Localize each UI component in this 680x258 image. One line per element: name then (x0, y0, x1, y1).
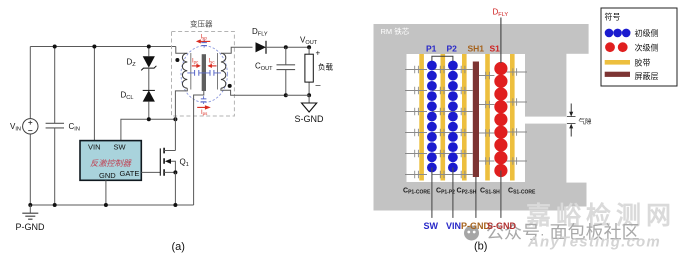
wire VIN left vertical (29, 47, 31, 119)
svg-text:GATE: GATE (120, 169, 140, 178)
winding P2 dots (448, 61, 458, 173)
svg-text:S-GND: S-GND (295, 114, 325, 124)
legend tape (605, 60, 630, 65)
diode DCL (143, 89, 155, 91)
svg-text:Isc: Isc (209, 59, 216, 65)
svg-text:屏蔽层: 屏蔽层 (635, 71, 659, 81)
wire DFLY down (500, 18, 502, 64)
winding P1 dots (427, 61, 437, 173)
controller U1 box (80, 141, 141, 181)
watermark logo (464, 226, 479, 241)
legend box (601, 8, 677, 86)
wire S-GND lead (500, 171, 502, 218)
ground S-GND (308, 95, 310, 103)
svg-text:VIN: VIN (446, 221, 461, 231)
transistor Q1 (159, 148, 161, 175)
junction dots output bottom (284, 93, 288, 97)
wire P1-P2 top link (432, 56, 453, 61)
svg-text:VIN: VIN (88, 143, 101, 152)
svg-text:CP1-CORE: CP1-CORE (403, 188, 431, 196)
svg-text:SW: SW (114, 143, 127, 152)
svg-text:(a): (a) (172, 241, 185, 253)
caps gap3 P2-SH (453, 66, 473, 179)
svg-text:反激控制器: 反激控制器 (90, 159, 132, 168)
svg-text:(b): (b) (474, 241, 487, 253)
caps gap5 S1-core (507, 68, 528, 165)
wire bottom rail (30, 204, 193, 206)
legend secondary dots (605, 42, 615, 52)
parasitic cap top (pri-sec) (201, 43, 207, 46)
shield SH1 bar (473, 62, 479, 178)
svg-text:SW: SW (424, 221, 439, 231)
wire DZ to DCL (148, 68, 150, 90)
core lines (191, 53, 218, 90)
legend shield (605, 72, 630, 77)
svg-text:变压器: 变压器 (190, 19, 213, 29)
junction dots bottom rail (28, 203, 32, 207)
wire VIN bottom vertical (29, 134, 31, 205)
svg-text:CS1-SH: CS1-SH (480, 188, 500, 196)
winding window (407, 54, 526, 182)
svg-text:SH1: SH1 (468, 44, 485, 54)
svg-text:Ips: Ips (201, 110, 208, 116)
current arrow Isp top (200, 40, 211, 42)
core ground wire (194, 91, 204, 205)
caps gap2 P1-P2 (432, 66, 453, 179)
current arrow Isc (211, 65, 217, 67)
junction clamp-SW (147, 117, 151, 121)
source VIN (23, 119, 38, 134)
svg-text:P2: P2 (447, 44, 458, 54)
zener DZ (148, 47, 150, 57)
svg-text:CP1-P2: CP1-P2 (436, 188, 455, 196)
air gap dimension (570, 104, 572, 137)
core bottom-right block (565, 183, 586, 207)
svg-text:P1: P1 (426, 44, 437, 54)
svg-text:Isp: Isp (201, 35, 208, 41)
polarity dot primary (175, 58, 179, 62)
primary winding (176, 47, 188, 54)
junction dots top rail (53, 45, 57, 49)
RM core body (374, 24, 567, 211)
svg-text:初级侧: 初级侧 (635, 28, 659, 38)
wire DCL down (148, 102, 150, 120)
current arrow Ips bottom (197, 106, 205, 108)
current arrow Ipc (192, 65, 198, 67)
wire GATE lead (141, 171, 160, 173)
capacitor CIN (54, 47, 56, 206)
svg-text:RM 铁芯: RM 铁芯 (381, 26, 410, 36)
transformer dashed box (172, 32, 235, 117)
wire controller VIN pin (93, 47, 95, 141)
svg-text:次级侧: 次级侧 (635, 43, 659, 53)
wire controller GND pin (105, 180, 107, 205)
ground P-GND (29, 205, 31, 213)
wire source down (174, 172, 176, 205)
svg-text:胶带: 胶带 (635, 58, 651, 68)
winding S1 dots (494, 62, 507, 177)
parasitic cap secondary-core (210, 70, 214, 76)
svg-text:符号: 符号 (605, 12, 621, 22)
parasitic cap bottom (core-gnd) (201, 99, 207, 102)
svg-text:CP2-SH: CP2-SH (457, 188, 477, 196)
wire P-GND lead (475, 177, 477, 218)
svg-text:Ipc: Ipc (192, 59, 199, 65)
wire output bottom rail (286, 94, 309, 96)
transformer parasitic ellipse (181, 46, 227, 103)
svg-text:+: + (316, 49, 321, 58)
capacitor COUT (285, 47, 287, 95)
polarity dot secondary (228, 84, 232, 88)
legend primary dots (605, 29, 614, 38)
svg-text:气隙: 气隙 (579, 117, 593, 126)
svg-text:负载: 负载 (318, 62, 333, 72)
svg-text:GND: GND (99, 171, 116, 180)
junction switch node (173, 117, 177, 121)
parasitic cap primary-core (187, 72, 221, 74)
caps gap1 core-P1 (405, 66, 427, 179)
svg-text:S-GND: S-GND (487, 221, 517, 231)
svg-text:CS1-CORE: CS1-CORE (508, 188, 536, 196)
air gap slot (525, 117, 566, 124)
svg-text:P-GND: P-GND (16, 222, 46, 232)
wire VIN lead (452, 168, 454, 218)
caps gap4 SH-S1 (479, 72, 494, 165)
wire SW to switch node (121, 119, 175, 140)
secondary winding (221, 53, 226, 88)
svg-text:AnyTesting.com: AnyTesting.com (527, 234, 661, 251)
diode DFLY (256, 42, 267, 52)
svg-text:S1: S1 (490, 44, 501, 54)
core bar (202, 54, 206, 91)
tape bars (419, 54, 424, 181)
svg-text:–: – (316, 80, 321, 90)
wire top rail (30, 46, 176, 48)
core top-right block (565, 24, 588, 54)
resistor load (308, 47, 310, 95)
wire SW lead (431, 168, 433, 218)
